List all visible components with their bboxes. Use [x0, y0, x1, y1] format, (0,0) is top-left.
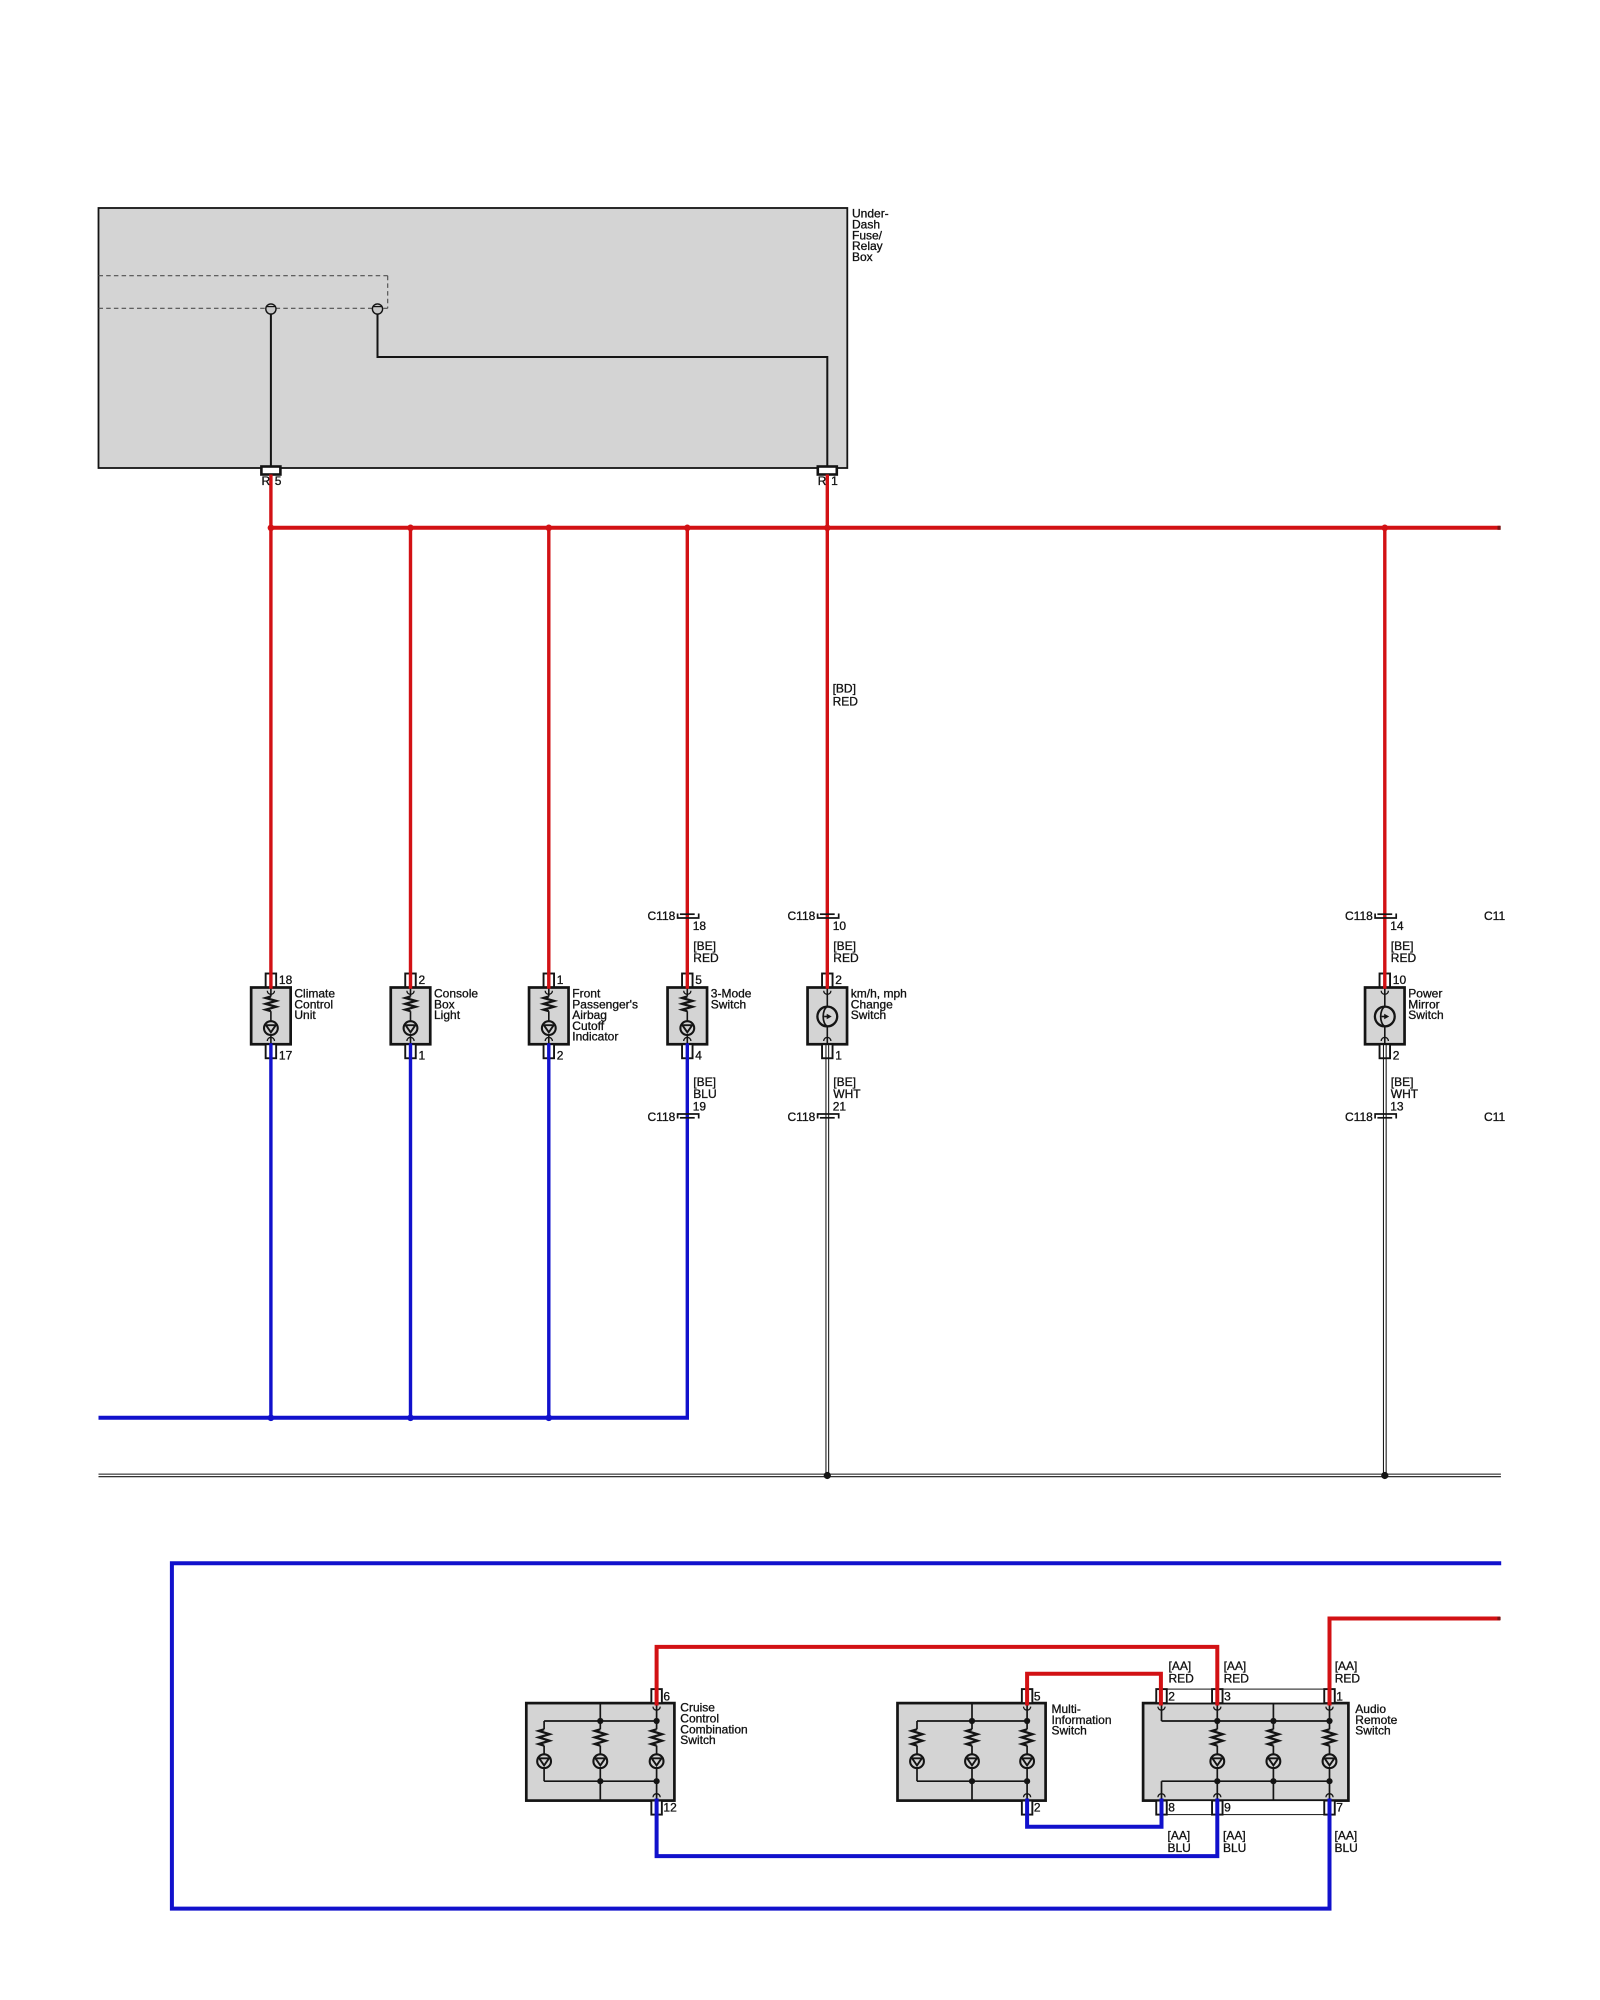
svg-text:WHT: WHT [833, 1087, 861, 1101]
wire: Climate pin 17 to blue bus [269, 1043, 272, 1420]
svg-text:1: 1 [1336, 1689, 1343, 1703]
internal bottom rail [1162, 1780, 1330, 1782]
svg-text:3: 3 [1224, 1689, 1231, 1703]
wire: bus to 3-Mode pin 5 (red) [686, 528, 689, 989]
junction: km/h white wire on ground bus [824, 1472, 831, 1479]
label: Audio Remote Switch [1355, 1702, 1397, 1738]
branch 2 (lamp, tied to case) [599, 1721, 601, 1729]
svg-text:RED: RED [693, 951, 719, 965]
svg-text:2: 2 [557, 1049, 564, 1063]
pin 5 / pin 2 labels (multi) [1034, 1689, 1041, 1814]
wire: red power bus [269, 526, 1500, 530]
connector C118 (wire 10) [788, 909, 847, 933]
svg-text:C118: C118 [1345, 909, 1373, 923]
internal bottom rail [544, 1780, 657, 1782]
pin 6 / pin 12 labels (cruise) [663, 1689, 677, 1814]
svg-text:C118: C118 [1345, 1110, 1373, 1124]
svg-text:19: 19 [693, 1100, 707, 1114]
wire labels [AA] RED [1169, 1659, 1195, 1685]
rail junctions [597, 1718, 603, 1724]
internal terminal (right) [372, 304, 382, 314]
console box light [391, 974, 431, 1059]
svg-text:13: 13 [1390, 1100, 1404, 1114]
audio remote switch [1143, 1689, 1348, 1815]
wire: bus to Airbag pin 1 (red) [547, 528, 550, 989]
pin 1 (top) / pin 2 (bottom) labels [557, 973, 564, 1063]
svg-text:C118: C118 [788, 1110, 816, 1124]
connector C118 (wire 21) [788, 1100, 847, 1124]
svg-text:5: 5 [695, 973, 702, 987]
dashed internal circuit in fuse box [99, 276, 388, 309]
connector R 5 [261, 467, 280, 475]
branch lamps [1216, 1721, 1218, 1729]
svg-text:2: 2 [835, 973, 842, 987]
pin 2 (top) / pin 1 (bottom) labels [835, 973, 842, 1063]
svg-text:1: 1 [835, 1049, 842, 1063]
svg-text:BLU: BLU [1223, 1841, 1246, 1855]
3-mode switch [668, 974, 708, 1059]
svg-text:10: 10 [1393, 973, 1407, 987]
svg-text:RED: RED [1335, 1671, 1361, 1685]
wire: Multi pin 2 to Audio pin 8 (blue) [1027, 1799, 1161, 1827]
wire: Console pin 1 to blue bus [409, 1043, 412, 1420]
svg-text:2: 2 [1034, 1800, 1041, 1814]
label: Front Passenger's Airbag Cutoff Indicator [572, 987, 638, 1044]
wire: 3-Mode pin 4 to blue bus [686, 1043, 689, 1418]
svg-text:Switch: Switch [1052, 1724, 1087, 1738]
svg-text:2: 2 [419, 973, 426, 987]
svg-text:R: R [262, 474, 271, 488]
svg-text:Indicator: Indicator [572, 1030, 618, 1044]
svg-text:Switch: Switch [1408, 1008, 1443, 1022]
svg-text:14: 14 [1390, 919, 1404, 933]
km/h mph change switch [808, 974, 848, 1059]
svg-text:RED: RED [1169, 1671, 1195, 1685]
svg-text:RED: RED [1391, 951, 1417, 965]
pin 18 (top) / pin 17 (bottom) labels [279, 973, 293, 1063]
pin 2 (top) / pin 1 (bottom) labels [419, 973, 426, 1063]
cruise control combination switch [526, 1689, 674, 1815]
power mirror switch [1365, 974, 1405, 1059]
blue return bus [99, 1416, 690, 1420]
svg-text:6: 6 [663, 1689, 670, 1703]
label R 1 [818, 474, 838, 488]
wire: Cruise pin 12 to Audio pin 9 (blue) [657, 1799, 1218, 1857]
wire: R5 to Climate pin 18 (red) [269, 475, 272, 989]
wire: Audio pin 7 to outer loop (blue) [1328, 1799, 1332, 1907]
svg-text:C118: C118 [788, 909, 816, 923]
connector C118 (wire 14) [1345, 909, 1404, 933]
svg-text:BLU: BLU [1168, 1841, 1191, 1855]
internal terminal (left) [266, 304, 276, 314]
junction: power mirror white wire on ground bus [1381, 1472, 1388, 1479]
branch 3 (lamp, to pins) [656, 1721, 658, 1729]
label: 3-Mode Switch [711, 987, 752, 1012]
wire: red feed to Cruise pin 6 and Audio pin 3 [657, 1647, 1218, 1706]
svg-text:RED: RED [833, 951, 859, 965]
wire: km/h pin 1 to ground bus (white) [826, 1044, 829, 1474]
svg-text:Switch: Switch [711, 997, 746, 1011]
svg-text:18: 18 [279, 973, 293, 987]
svg-text:BLU: BLU [1335, 1841, 1358, 1855]
svg-text:C118: C118 [648, 1110, 676, 1124]
wire: bus to Power Mirror pin 10 (red) [1383, 528, 1386, 989]
connector C118 (wire 18) [648, 909, 707, 933]
pin 5 (top) / pin 4 (bottom) labels [695, 973, 702, 1063]
wire labels [AA] BLU [1168, 1828, 1191, 1855]
branch 2 (lamp, tied to case) [971, 1721, 973, 1729]
svg-text:Light: Light [434, 1008, 461, 1022]
svg-text:Switch: Switch [851, 1008, 886, 1022]
label R 5 [262, 474, 282, 488]
wire: Multi pin 5 to Audio pin 2 (red) [1027, 1674, 1161, 1706]
svg-text:5: 5 [1034, 1689, 1041, 1703]
svg-text:5: 5 [275, 474, 282, 488]
svg-text:RED: RED [833, 694, 859, 708]
junctions on red bus [268, 525, 275, 532]
climate control unit [251, 974, 291, 1059]
wire label [BE] RED [833, 939, 859, 965]
wire: power mirror pin 2 to ground bus (white) [1383, 1044, 1386, 1474]
wire label [BE] RED [693, 939, 719, 965]
multi-information switch [898, 1689, 1046, 1815]
wire label [BE] RED [1391, 939, 1417, 965]
label: Climate Control Unit [294, 987, 335, 1023]
svg-text:4: 4 [695, 1049, 702, 1063]
branch 3 (lamp, to pins) [1026, 1721, 1028, 1729]
front passenger airbag cutoff indicator [529, 974, 569, 1059]
branch 1 (lamp) [543, 1721, 545, 1729]
svg-text:1: 1 [557, 973, 564, 987]
label: Multi-Information Switch [1052, 1702, 1112, 1738]
internal top rail [917, 1720, 1027, 1722]
wire: Airbag pin 2 to blue bus [547, 1043, 550, 1420]
svg-text:21: 21 [833, 1100, 847, 1114]
svg-text:R: R [818, 474, 827, 488]
svg-text:Box: Box [852, 250, 873, 264]
junctions on blue bus [268, 1415, 275, 1422]
svg-text:10: 10 [833, 919, 847, 933]
svg-text:7: 7 [1336, 1800, 1343, 1814]
rail junctions [969, 1718, 975, 1724]
pin 2 entry / pin 8 exit stubs [1161, 1703, 1163, 1721]
svg-text:2: 2 [1393, 1049, 1400, 1063]
pin 10 (top) / pin 2 (bottom) labels [1393, 973, 1407, 1063]
wire: R1 to km/h switch pin 2 (red) [826, 475, 829, 989]
connector strip (bottom pins 8 9 7) [1156, 1801, 1335, 1815]
label: Under-Dash Fuse/Relay Box [852, 207, 889, 264]
svg-text:BLU: BLU [693, 1087, 716, 1101]
svg-text:1: 1 [419, 1049, 426, 1063]
connector R 1 [818, 467, 837, 475]
label [BD] RED [833, 682, 859, 709]
label: Power Mirror Switch [1408, 987, 1443, 1023]
connector C118 (wire 13) [1345, 1100, 1404, 1124]
svg-text:12: 12 [663, 1800, 677, 1814]
branch 1 (lamp) [916, 1721, 918, 1729]
label: Cruise Control Combination Switch [680, 1701, 747, 1747]
svg-text:2: 2 [1168, 1689, 1175, 1703]
label: Console Box Light [434, 987, 478, 1023]
wire: terminal to connector R 1 (black, jogged) [378, 314, 828, 467]
connector strip (top pins 2 3 1) [1156, 1689, 1335, 1703]
audio pin labels 2 3 1 / 8 9 7 [1168, 1689, 1343, 1814]
svg-text:C118: C118 [648, 909, 676, 923]
svg-text:18: 18 [693, 919, 707, 933]
svg-text:17: 17 [279, 1049, 293, 1063]
svg-text:WHT: WHT [1391, 1087, 1419, 1101]
svg-text:8: 8 [1168, 1800, 1175, 1814]
wire: bus to Console pin 2 (red) [409, 528, 412, 989]
internal bottom rail [917, 1780, 1027, 1782]
svg-text:C11: C11 [1484, 1110, 1505, 1124]
connector C118 (wire 19) [648, 1100, 707, 1124]
svg-text:9: 9 [1224, 1800, 1231, 1814]
internal top rail [1162, 1720, 1330, 1722]
svg-text:Unit: Unit [294, 1008, 316, 1022]
ground return bus (white double line) [99, 1474, 1501, 1477]
wire labels [BE] BLU / WHT [693, 1075, 716, 1101]
label: km/h, mph Change Switch [851, 987, 907, 1023]
svg-text:RED: RED [1224, 1671, 1250, 1685]
wire: Audio pin 1 red feed from right [1330, 1619, 1501, 1706]
outer blue loop [172, 1563, 1501, 1908]
svg-text:Switch: Switch [680, 1733, 715, 1747]
under-dash fuse/relay box [99, 208, 848, 468]
internal top rail [544, 1720, 657, 1722]
svg-text:1: 1 [831, 474, 838, 488]
svg-text:C11: C11 [1484, 909, 1505, 923]
wire: terminal to connector R 5 (black) [270, 314, 272, 467]
svg-text:Switch: Switch [1355, 1724, 1390, 1738]
